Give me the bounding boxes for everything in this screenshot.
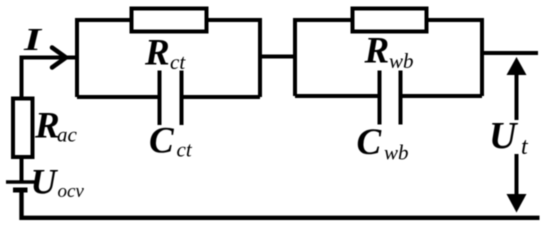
svg-text:R: R	[364, 31, 390, 72]
svg-text:wb: wb	[384, 141, 409, 165]
svg-text:I: I	[23, 21, 43, 57]
svg-text:C: C	[149, 121, 175, 162]
svg-text:wb: wb	[389, 49, 414, 73]
svg-text:ocv: ocv	[58, 181, 85, 202]
svg-text:C: C	[357, 122, 383, 163]
svg-text:ct: ct	[170, 50, 186, 74]
svg-text:R: R	[34, 106, 60, 147]
svg-text:U: U	[489, 115, 519, 157]
svg-text:ct: ct	[177, 138, 193, 162]
svg-text:U: U	[31, 162, 59, 202]
svg-text:ac: ac	[57, 123, 78, 147]
svg-text:R: R	[144, 33, 170, 74]
